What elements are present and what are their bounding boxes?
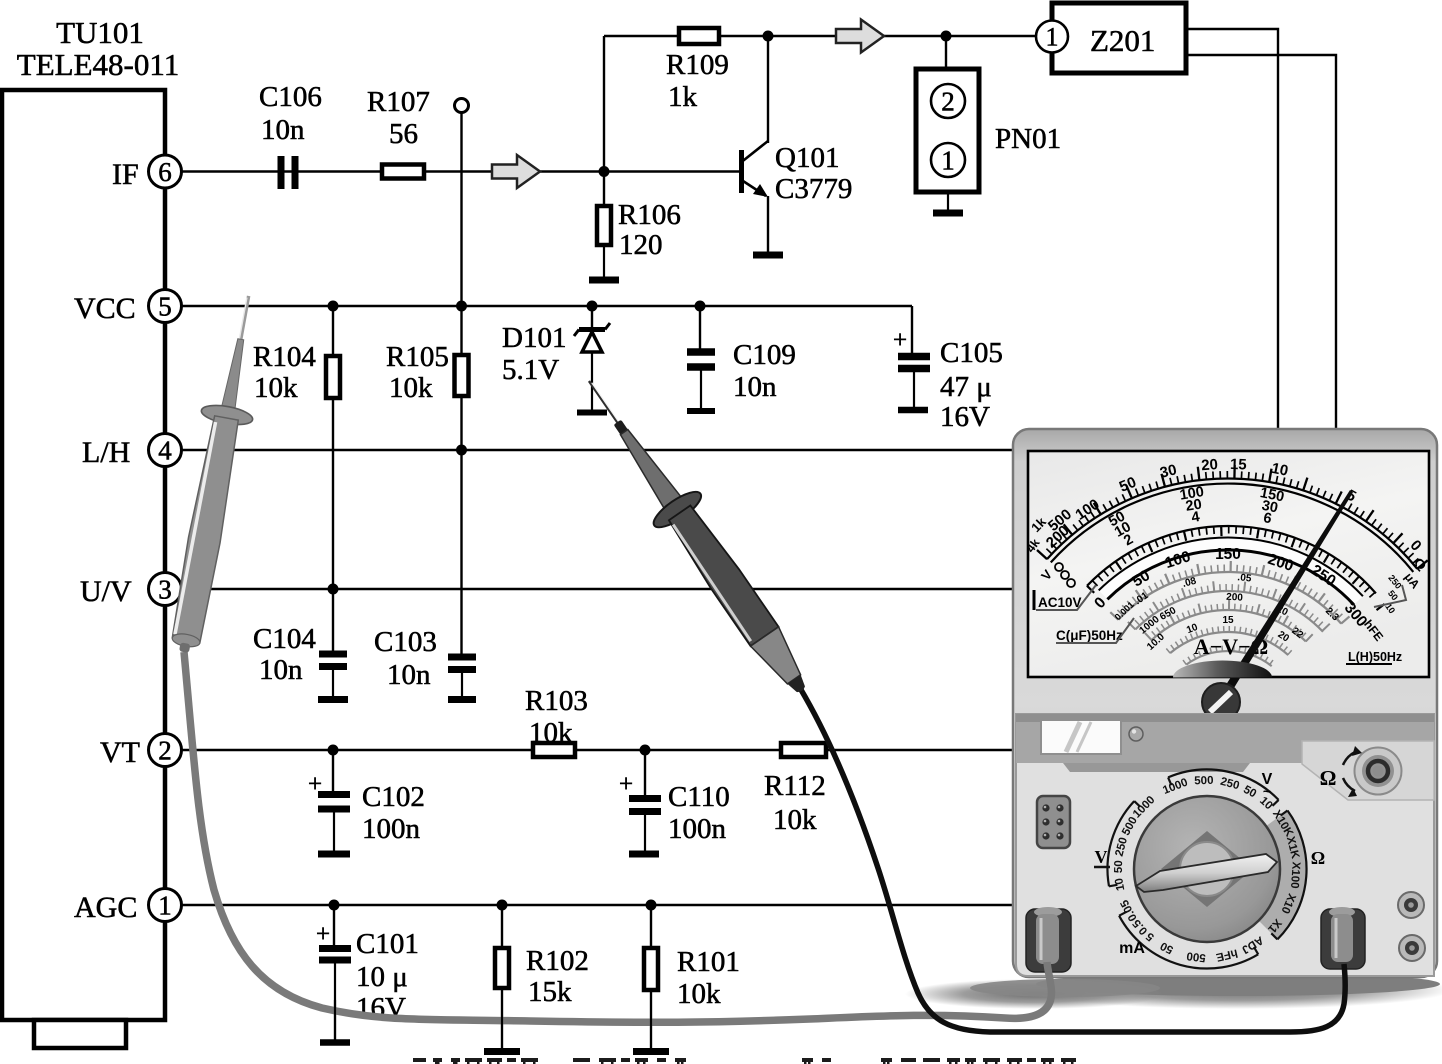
wire D101 column [591, 306, 593, 328]
resistor R109 [679, 28, 719, 44]
node top/R109 junction [763, 31, 774, 42]
meter face [1028, 451, 1429, 677]
svg-text:15: 15 [1222, 615, 1234, 626]
resistor R112 [781, 743, 826, 757]
connector PN01 [916, 69, 979, 192]
svg-text:6: 6 [158, 157, 172, 187]
accessory socket [1037, 796, 1070, 848]
meter lower panel [1016, 714, 1434, 976]
svg-text:10k: 10k [677, 978, 721, 1010]
pin 4 L/H [149, 434, 182, 467]
wire R101 lower stem (over cable) [650, 990, 652, 1048]
grey test lead (from probe 1 to left jack) [184, 652, 1051, 1022]
meter scale: second arc [1087, 526, 1376, 593]
svg-text:100n: 100n [362, 813, 421, 845]
node VT/C110 [640, 745, 651, 756]
svg-text:C106: C106 [259, 81, 322, 113]
svg-text:Ω: Ω [1320, 766, 1337, 790]
wire VCC row (pin5 to C105) [165, 305, 912, 307]
svg-text:R102: R102 [526, 945, 589, 977]
wire C105 column [911, 306, 913, 355]
svg-text:3: 3 [158, 575, 172, 605]
wire R102 lower stem (over cable) [501, 988, 503, 1048]
meter dark band [1016, 714, 1434, 763]
tuner block bottom tab [34, 1020, 126, 1048]
resistor R107 [382, 165, 424, 179]
svg-text:C110: C110 [668, 781, 730, 813]
svg-text:10n: 10n [733, 371, 777, 403]
wire VT row (pin2 to meter) [165, 749, 1016, 751]
resistor R106 [597, 206, 611, 245]
svg-text:4: 4 [158, 436, 172, 466]
ground below D101 [577, 410, 607, 416]
ohm knob arrows [1343, 752, 1355, 765]
svg-text:V: V [1095, 847, 1108, 867]
capacitor C104 [319, 651, 347, 658]
node VCC/R104 [328, 301, 339, 312]
wire C109 column [699, 306, 701, 349]
tuner block TU101 body [2, 90, 165, 1020]
svg-text:VT: VT [100, 736, 140, 769]
svg-text:120: 120 [619, 229, 663, 261]
svg-text:50: 50 [1113, 860, 1125, 873]
node AGC/R102 [497, 900, 508, 911]
meter scale: outer ohm arc [1047, 479, 1417, 569]
terminal 2 [1399, 935, 1425, 961]
wire C101 column [333, 905, 335, 946]
wire R102 column [501, 905, 503, 949]
svg-text:500: 500 [1186, 949, 1207, 963]
svg-text:56: 56 [389, 118, 418, 150]
svg-text:10n: 10n [261, 114, 305, 146]
meter scale: 4th arc [1135, 591, 1323, 632]
svg-text:16V: 16V [940, 401, 990, 433]
svg-text:VCC: VCC [74, 292, 136, 325]
svg-text:L/H: L/H [82, 436, 130, 469]
svg-text:R107: R107 [367, 86, 430, 118]
svg-text:R104: R104 [253, 341, 316, 373]
meter scale: V arc [1118, 572, 1341, 624]
wire AGC row (pin1 to meter) [165, 904, 1016, 906]
needle pivot dome [1173, 661, 1272, 678]
resistor R103 [533, 743, 575, 757]
wire Z201 output 1 [1186, 29, 1278, 430]
svg-text:C103: C103 [374, 626, 437, 658]
meter scale: 6th arc [1170, 632, 1288, 655]
svg-text:U/V: U/V [80, 575, 132, 608]
terminal 1 [1398, 892, 1424, 918]
meter scale: 7th arc [1186, 651, 1271, 666]
ohm adjust panel [1302, 741, 1434, 800]
svg-text:10k: 10k [773, 804, 817, 836]
capacitor C109 [687, 348, 715, 356]
svg-text:10k: 10k [389, 372, 433, 404]
node top/PN01 junction [941, 31, 952, 42]
indicator dot [1129, 727, 1143, 741]
node VCC/C109 [695, 301, 706, 312]
block Z201 [1052, 3, 1186, 73]
label AC10V [1033, 590, 1036, 610]
resistor R105 [455, 355, 469, 396]
dial knob [1134, 796, 1280, 942]
meter scale: 5th arc [1152, 610, 1306, 641]
wire L/H row (pin4 to meter) [165, 449, 1016, 451]
transistor Q101 [739, 150, 744, 193]
svg-text:R112: R112 [764, 770, 826, 802]
svg-text:IF: IF [112, 158, 139, 191]
svg-text:+: + [619, 771, 633, 798]
svg-text:2: 2 [158, 736, 172, 766]
node VCC/R105 [456, 301, 467, 312]
svg-text:10k: 10k [529, 717, 573, 749]
svg-text:10n: 10n [259, 654, 303, 686]
svg-text:mA: mA [1119, 940, 1145, 957]
multimeter body [1013, 429, 1437, 977]
svg-text:D101: D101 [502, 322, 566, 354]
svg-text:100n: 100n [668, 813, 727, 845]
wire C101 lower stem (over cable) [334, 1000, 336, 1040]
svg-text:R103: R103 [525, 685, 588, 717]
svg-text:5.1V: 5.1V [502, 354, 559, 386]
svg-text:C3779: C3779 [775, 173, 852, 205]
svg-text:PN01: PN01 [995, 123, 1061, 155]
svg-text:Z201: Z201 [1090, 23, 1155, 58]
svg-text:C102: C102 [362, 781, 425, 813]
wire Q101 collector vertical [767, 36, 769, 143]
rotary dial grey sector [1259, 811, 1306, 939]
svg-text:15k: 15k [528, 976, 572, 1008]
svg-text:~: ~ [1263, 783, 1271, 799]
svg-text:AC10V: AC10V [1038, 595, 1082, 610]
svg-text:TELE48-011: TELE48-011 [17, 47, 179, 82]
node L/H-R105 [456, 445, 467, 456]
band lower shadow step [1063, 763, 1250, 772]
pin 3 U/V [149, 573, 182, 606]
wire R105 column (terminal to C103) [460, 112, 462, 655]
svg-text:10n: 10n [387, 659, 431, 691]
mirror window [1041, 720, 1121, 754]
svg-text:R105: R105 [386, 341, 449, 373]
svg-text:10: 10 [1113, 877, 1127, 892]
meter needle [1217, 490, 1353, 704]
wire C102 column [332, 750, 334, 792]
svg-text:Q101: Q101 [775, 142, 839, 174]
pin 1 AGC [149, 889, 182, 922]
svg-text:500: 500 [1194, 775, 1214, 788]
wire R104/C104 column [332, 306, 334, 652]
svg-text:+: + [316, 921, 330, 948]
svg-text:C109: C109 [733, 339, 796, 371]
wire Z201 output 2 [1186, 55, 1336, 430]
signal arrow 1 [492, 155, 540, 188]
resistor R101 [644, 948, 658, 990]
node AGC/R101 [646, 900, 657, 911]
node VCC/D101 [587, 301, 598, 312]
ohm adjust knob [1355, 748, 1402, 795]
svg-text:1k: 1k [668, 81, 698, 113]
svg-text:C105: C105 [940, 337, 1003, 369]
ground below C109 [687, 408, 715, 414]
pin 6 IF [149, 155, 182, 188]
caption fragment (cut off at bottom) [413, 1058, 426, 1062]
multimeter shadow [1024, 971, 1442, 1009]
zener diode D101 [579, 327, 605, 332]
meter scale: mirror band [1099, 538, 1363, 605]
svg-text:10 μ: 10 μ [356, 961, 408, 993]
svg-text:TU101: TU101 [56, 15, 144, 50]
svg-text:R106: R106 [618, 199, 681, 231]
wire C110 column [644, 750, 646, 796]
wire R101 column [650, 905, 652, 949]
svg-text:150: 150 [1215, 546, 1241, 563]
test probe 2 (dark, on D101) [566, 365, 825, 707]
svg-text:X100: X100 [1288, 861, 1302, 889]
zero adjust screw [1202, 683, 1240, 721]
svg-text:AGC: AGC [74, 891, 137, 924]
svg-text:15: 15 [1230, 456, 1247, 474]
svg-text:1: 1 [1046, 23, 1059, 52]
svg-text:10k: 10k [254, 372, 298, 404]
svg-text:5: 5 [158, 292, 172, 322]
svg-text:L(H)50Hz: L(H)50Hz [1348, 650, 1402, 664]
wire R106/base column [603, 36, 605, 206]
signal arrow 2 [836, 20, 884, 53]
capacitor C103 [448, 654, 476, 661]
wire IF row (pin6 to Q101 base) [165, 170, 739, 172]
pin 2 VT [149, 734, 182, 767]
svg-text:47 μ: 47 μ [940, 371, 992, 403]
node AGC/C101 [329, 900, 340, 911]
resistor R104 [326, 356, 340, 398]
dial group arcs [1168, 769, 1279, 799]
resistor R102 [495, 948, 509, 988]
svg-text:2: 2 [941, 87, 955, 117]
svg-text:R101: R101 [677, 946, 740, 978]
svg-text:.05: .05 [1237, 572, 1252, 585]
dial lever [1136, 854, 1277, 892]
capacitor C106 [278, 156, 285, 189]
node VT/C102 [328, 745, 339, 756]
node U/V-R104 [328, 584, 339, 595]
wire U/V row (pin3 to meter) [165, 588, 1016, 590]
svg-text:20: 20 [1201, 456, 1219, 474]
node IF/R106 junction [599, 166, 610, 177]
svg-text:C101: C101 [356, 928, 419, 960]
right probe jack [1321, 909, 1365, 969]
ground below Q101 emitter [753, 252, 783, 259]
wire top row (to R109 / Z201) [604, 35, 1038, 37]
right bracket mark [1374, 585, 1406, 607]
svg-text:C104: C104 [253, 623, 316, 655]
ground below R106 [603, 245, 605, 280]
meter scale left-end circles [1055, 563, 1063, 571]
test probe 1 (grey, on VCC pin) [158, 291, 274, 656]
svg-text:+: + [893, 327, 907, 354]
svg-text:Ω: Ω [1311, 848, 1325, 868]
pin 5 VCC [149, 290, 182, 323]
svg-text:200: 200 [1226, 592, 1244, 604]
svg-text:1: 1 [941, 146, 955, 176]
ground below PN01 [947, 192, 949, 213]
wire PN01 column [945, 36, 947, 69]
svg-text:10: 10 [1270, 460, 1290, 480]
svg-text:C(μF)50Hz: C(μF)50Hz [1056, 628, 1123, 643]
svg-text:1: 1 [158, 891, 172, 921]
black test lead (from probe 2 to right jack) [800, 688, 1345, 1032]
svg-text:R109: R109 [666, 49, 729, 81]
left probe jack [1026, 909, 1071, 972]
open terminal above R107 [455, 99, 469, 113]
